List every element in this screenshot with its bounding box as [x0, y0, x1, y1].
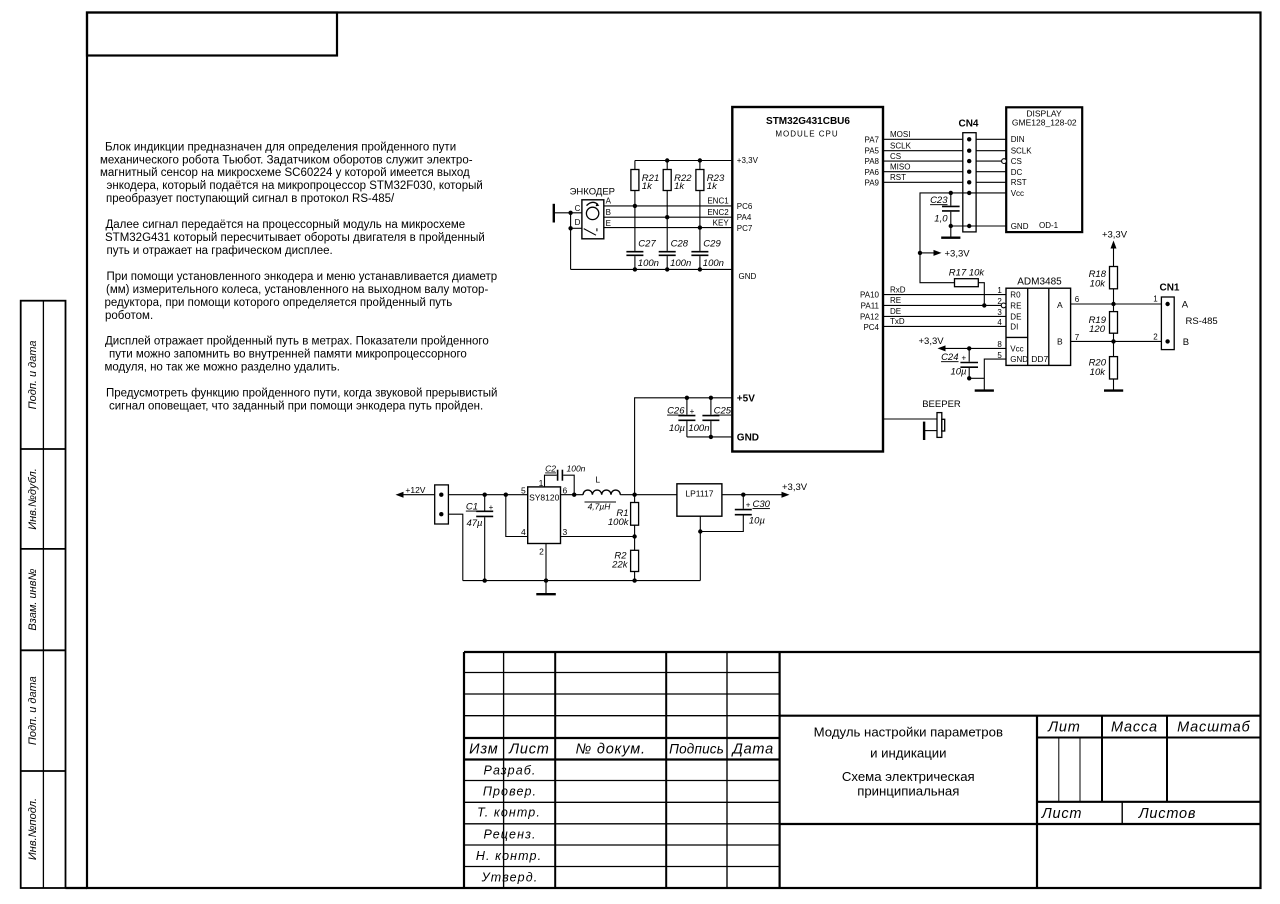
svg-text:Инв.№дубл.: Инв.№дубл. — [27, 468, 39, 530]
svg-text:DD7: DD7 — [1031, 354, 1048, 364]
svg-text:RST: RST — [890, 173, 906, 182]
wire RE PA11 to ADM3485 pin2 bubble — [884, 296, 1002, 305]
svg-text:сигнал оповещает, что заданный: сигнал оповещает, что заданный при помощ… — [109, 400, 483, 412]
svg-text:Лист: Лист — [508, 742, 550, 758]
svg-text:4,7µH: 4,7µH — [588, 501, 612, 511]
junction dot C23 top on Vcc net — [949, 191, 953, 195]
svg-text:пути можно запомнить во внутре: пути можно запомнить во внутренней памят… — [109, 349, 467, 361]
svg-text:3: 3 — [563, 527, 568, 537]
wire encoder D pin — [571, 227, 582, 229]
junction dot C29 on GND rail — [698, 267, 702, 271]
terminal bar at encoder common — [553, 204, 555, 223]
svg-text:и индикации: и индикации — [870, 745, 946, 760]
svg-text:DE: DE — [1010, 312, 1021, 321]
IC DA2 LP1117 — [677, 484, 722, 516]
svg-text:CS: CS — [1011, 157, 1022, 166]
svg-text:2: 2 — [539, 546, 544, 556]
svg-text:Модуль настройки параметров: Модуль настройки параметров — [814, 724, 1003, 739]
svg-text:CS: CS — [890, 152, 901, 161]
encoder S1 ЭНКОДЕР — [570, 187, 615, 239]
svg-text:Н. контр.: Н. контр. — [476, 849, 542, 863]
connector CN4 — [958, 119, 978, 232]
svg-text:GND: GND — [1010, 355, 1028, 364]
wire CN4 to display SCLK — [976, 150, 1006, 152]
svg-text:MISO: MISO — [890, 162, 910, 171]
junction dot rail R22 — [665, 158, 669, 162]
wire +3,3V pullup rail — [635, 160, 732, 162]
wire A line ADM3485 to CN1 — [1071, 303, 1162, 305]
junction dot LP1117 gnd C30 — [698, 529, 702, 533]
junction dot R22 on ENC2 — [665, 215, 669, 219]
svg-text:+: + — [690, 407, 695, 416]
svg-text:Vcc: Vcc — [1010, 344, 1023, 353]
capacitor C28 100n — [659, 217, 692, 269]
wire ENC1 line encoder A to PC6 — [604, 197, 733, 206]
svg-text:+12V: +12V — [405, 485, 425, 495]
svg-text:+3,3V: +3,3V — [737, 156, 759, 165]
svg-text:47µ: 47µ — [466, 518, 483, 529]
wire MISO PA6 to CN4 — [884, 162, 963, 171]
capacitor C27 100n — [626, 206, 659, 270]
svg-text:R0: R0 — [1010, 291, 1021, 300]
svg-text:Инв.№подл.: Инв.№подл. — [27, 798, 39, 860]
svg-text:SCLK: SCLK — [890, 141, 912, 150]
svg-text:DI: DI — [1010, 322, 1018, 331]
svg-text:DE: DE — [890, 307, 901, 316]
svg-text:принципиальная: принципиальная — [857, 783, 959, 798]
top-left document stamp box — [87, 13, 337, 56]
title block header texts — [469, 719, 1250, 884]
svg-text:+: + — [962, 354, 967, 363]
wire bottom rail — [463, 580, 701, 582]
svg-text:B: B — [606, 208, 611, 217]
svg-text:6: 6 — [1075, 295, 1080, 304]
svg-text:ADM3485: ADM3485 — [1017, 277, 1062, 288]
svg-text:LP1117: LP1117 — [685, 489, 713, 499]
svg-text:GND: GND — [1011, 222, 1029, 231]
svg-text:BEEPER: BEEPER — [922, 399, 961, 410]
svg-text:№ докум.: № докум. — [576, 742, 646, 758]
encoder pin letter A — [606, 197, 612, 206]
svg-text:CN4: CN4 — [958, 119, 978, 130]
wire RxD PA10 to ADM3485 pin1 — [884, 285, 1007, 294]
wire R18 to A line — [1113, 289, 1115, 312]
svg-text:PA10: PA10 — [860, 290, 880, 299]
svg-text:10µ: 10µ — [749, 516, 766, 527]
wire +12V rail to SY8120 — [448, 494, 527, 496]
wire CN4 to display DC — [976, 171, 1006, 173]
svg-text:CN1: CN1 — [1159, 282, 1179, 293]
svg-text:10µ: 10µ — [669, 423, 686, 434]
svg-text:C30: C30 — [753, 499, 771, 510]
beeper BQ1 — [884, 399, 961, 440]
encoder pin letter B — [606, 208, 611, 217]
svg-text:MOSI: MOSI — [890, 130, 910, 139]
IC DD7 ADM3485 — [1006, 277, 1071, 366]
svg-text:Дисплей отражает пройденный пу: Дисплей отражает пройденный путь в метра… — [105, 336, 489, 348]
junction dot B line R19 — [1111, 339, 1115, 343]
capacitor C1 47µ polarized — [466, 493, 494, 581]
wire Vcc net C23 to CN4 to display — [920, 193, 1006, 253]
wire RST PA9 to CN4 — [884, 173, 963, 182]
svg-text:100n: 100n — [703, 258, 724, 269]
resistor R20 10k — [1089, 357, 1118, 379]
svg-text:Утверд.: Утверд. — [481, 870, 539, 884]
svg-text:A: A — [606, 197, 612, 206]
svg-text:Изм: Изм — [469, 742, 498, 758]
svg-text:C23: C23 — [930, 195, 948, 206]
svg-text:RE: RE — [890, 296, 901, 305]
svg-text:При помощи установленного энко: При помощи установленного энкодера и мен… — [107, 271, 498, 283]
svg-text:100n: 100n — [567, 464, 586, 474]
svg-text:RS-485: RS-485 — [1186, 316, 1218, 327]
svg-text:120: 120 — [1089, 324, 1106, 335]
title block table — [464, 652, 1261, 888]
svg-text:4: 4 — [521, 527, 526, 537]
svg-text:1k: 1k — [707, 181, 718, 192]
encoder push switch — [584, 228, 597, 235]
wire ENC2 line encoder B to PA4 — [604, 208, 733, 217]
description text block — [100, 141, 497, 412]
svg-text:L: L — [595, 475, 600, 485]
svg-text:Дата: Дата — [731, 742, 774, 758]
capacitor C26 10µ polarized — [667, 396, 695, 437]
svg-text:Далее сигнал передаётся на про: Далее сигнал передаётся на процессорный … — [106, 219, 466, 231]
wire GND rail into MCU bottom — [687, 436, 732, 438]
capacitor C29 100n — [691, 228, 724, 270]
ground bar below C23 — [941, 226, 960, 238]
svg-text:RST: RST — [1011, 178, 1027, 187]
svg-text:C: C — [575, 204, 581, 213]
resistor R21 1k — [631, 161, 659, 206]
svg-text:OD-1: OD-1 — [1039, 221, 1059, 230]
capacitor C25 100n — [688, 396, 731, 440]
wire +3,3V vertical to R17 — [920, 253, 955, 283]
encoder pin letter C — [575, 204, 581, 213]
svg-text:Лит: Лит — [1047, 719, 1080, 735]
svg-text:редуктора, при помощи которого: редуктора, при помощи которого определяе… — [105, 297, 453, 309]
net label +3,3V arrow at LP1117 output — [782, 482, 808, 498]
resistor R17 10k — [949, 268, 986, 287]
svg-text:Листов: Листов — [1138, 806, 1197, 822]
svg-text:PA4: PA4 — [737, 213, 752, 222]
svg-text:10k: 10k — [1090, 279, 1107, 290]
svg-text:GME128_128-02: GME128_128-02 — [1012, 118, 1077, 128]
wire GND net C23 to CN4 to display — [951, 225, 1006, 227]
svg-text:Реценз.: Реценз. — [483, 827, 536, 841]
svg-text:22k: 22k — [611, 559, 629, 570]
CN4 pin junction dots — [967, 137, 971, 228]
wire +5V rail into MCU — [635, 398, 733, 495]
resistor R18 10k — [1089, 267, 1118, 290]
capacitor C23 1,0 — [930, 193, 960, 226]
encoder pin letter D — [575, 218, 581, 227]
junction dot C30 top — [741, 493, 745, 497]
svg-text:путь и отражает на графическом: путь и отражает на графическом дисплее. — [107, 245, 333, 257]
svg-text:PA9: PA9 — [864, 178, 879, 187]
net label +3,3V arrow near C23 — [918, 248, 970, 259]
svg-text:RE: RE — [1010, 301, 1021, 310]
svg-text:энкодера, который подаётся на: энкодера, который подаётся на микропроце… — [107, 180, 483, 192]
svg-text:ENC2: ENC2 — [707, 208, 729, 217]
svg-text:DIN: DIN — [1011, 135, 1025, 144]
wire DE PA12 to ADM3485 pin3 — [884, 307, 1007, 316]
junction dot C1 bottom rail — [483, 578, 487, 582]
svg-text:ENC1: ENC1 — [707, 197, 729, 206]
svg-text:C2: C2 — [545, 464, 556, 474]
wire connector pin2 to bottom rail — [448, 514, 462, 580]
junction dot C24 bottom — [967, 376, 971, 380]
svg-text:Разраб.: Разраб. — [484, 763, 537, 777]
svg-text:2: 2 — [997, 297, 1002, 306]
svg-text:100k: 100k — [608, 517, 630, 528]
wire CN4 to display DIN — [976, 138, 1006, 140]
svg-text:B: B — [1057, 336, 1063, 346]
svg-text:STM32G431 который пересчитывае: STM32G431 который пересчитывает обороты … — [105, 232, 485, 244]
svg-text:KEY: KEY — [713, 218, 730, 227]
svg-text:2: 2 — [1153, 333, 1158, 342]
wire encoder common down to GND rail — [570, 213, 572, 270]
svg-text:C24: C24 — [941, 352, 958, 363]
junction dot C23 bottom on GND net — [949, 224, 953, 228]
svg-text:C28: C28 — [671, 239, 689, 250]
sidebar label "Подп. и дата" (lower) — [27, 676, 39, 745]
svg-text:Блок индикции предназначен для: Блок индикции предназначен для определен… — [105, 141, 456, 153]
ground bar below R20 — [1104, 389, 1123, 391]
sidebar label "Инв.№дубл." — [27, 468, 39, 530]
svg-text:магнитный сенсор на микросхеме: магнитный сенсор на микросхеме SC60224 у… — [100, 167, 470, 179]
svg-text:1k: 1k — [674, 181, 685, 192]
svg-text:PC4: PC4 — [863, 323, 879, 332]
svg-text:Провер.: Провер. — [483, 784, 537, 798]
svg-text:1k: 1k — [642, 181, 653, 192]
svg-text:100n: 100n — [638, 258, 659, 269]
junction dot RE line — [982, 303, 986, 307]
ADM3485 RE inversion bubble — [1001, 303, 1006, 308]
svg-text:Лист: Лист — [1041, 806, 1083, 822]
sidebar label "Подп. и дата" (upper) — [27, 340, 39, 409]
svg-text:(мм) измерительного колеса, ус: (мм) измерительного колеса, установленно… — [106, 284, 488, 296]
sidebar table (left margin columns) — [21, 301, 87, 888]
encoder pin letter E — [606, 219, 611, 228]
svg-text:C26: C26 — [667, 406, 685, 417]
svg-text:роботом.: роботом. — [105, 310, 153, 322]
svg-text:A: A — [1182, 299, 1189, 310]
svg-text:R17 10k: R17 10k — [949, 268, 986, 279]
svg-text:Схема электрическая: Схема электрическая — [842, 769, 975, 784]
svg-text:TxD: TxD — [890, 317, 905, 326]
svg-text:Масса: Масса — [1111, 719, 1158, 735]
svg-text:+3,3V: +3,3V — [919, 336, 945, 347]
svg-text:PA8: PA8 — [864, 157, 879, 166]
svg-text:5: 5 — [521, 485, 526, 495]
svg-text:PC6: PC6 — [737, 202, 753, 211]
wire EN branch to pin4 — [506, 495, 528, 537]
junction dot L output node — [632, 493, 636, 497]
wire B line ADM3485 to CN1 — [1071, 340, 1162, 342]
svg-text:STM32G431CBU6: STM32G431CBU6 — [766, 116, 850, 127]
svg-text:+: + — [746, 501, 751, 510]
svg-text:механического робота Тьюбот. З: механического робота Тьюбот. Задатчиком … — [100, 154, 473, 166]
svg-text:MODULE CPU: MODULE CPU — [775, 129, 838, 138]
junction dot A line R18 — [1111, 302, 1115, 306]
svg-text:+: + — [489, 503, 494, 512]
svg-text:преобразует поступающий сигнал: преобразует поступающий сигнал в протоко… — [106, 193, 395, 205]
encoder rotation arrow — [587, 202, 600, 206]
svg-text:3: 3 — [997, 308, 1002, 317]
svg-text:100n: 100n — [670, 258, 691, 269]
resistor R22 1k — [663, 161, 692, 218]
display U2 GME128_128-02 — [1006, 107, 1082, 232]
svg-text:Подп. и дата: Подп. и дата — [27, 340, 39, 409]
svg-text:1: 1 — [539, 478, 544, 488]
ground bar below SY8120 — [536, 593, 556, 595]
ground bar below ADM3485 — [975, 389, 994, 391]
sidebar label "Инв.№подл." — [27, 798, 39, 860]
junction dot feedback node — [632, 534, 636, 538]
connector CN1 RS-485 — [1153, 282, 1217, 349]
svg-text:PA7: PA7 — [864, 136, 879, 145]
svg-text:1,0: 1,0 — [934, 213, 948, 224]
svg-text:модуля, но так же можно раздел: модуля, но так же можно разделно удалить… — [105, 362, 341, 374]
net label +3,3V arrow at ADM3485 Vcc — [919, 336, 1007, 352]
svg-text:8: 8 — [997, 340, 1002, 349]
svg-text:Масштаб: Масштаб — [1177, 719, 1250, 735]
svg-text:GND: GND — [737, 433, 759, 444]
wire R19 to B line — [1113, 333, 1115, 356]
wire SCLK PA5 to CN4 — [884, 141, 963, 150]
wire MOSI PA7 to CN4 — [884, 130, 963, 139]
svg-text:A: A — [1057, 300, 1063, 310]
encoder rotor circle — [586, 207, 598, 219]
wire ADM3485 GND pin5 to ground — [969, 359, 1006, 391]
svg-text:PA5: PA5 — [864, 147, 879, 156]
svg-text:SY8120: SY8120 — [529, 493, 560, 503]
svg-text:C27: C27 — [638, 239, 656, 250]
svg-text:Т. контр.: Т. контр. — [477, 806, 541, 820]
wire LP1117 output to +3,3V — [722, 494, 782, 496]
svg-text:+5V: +5V — [737, 393, 755, 404]
capacitor C30 10µ polarized — [700, 495, 770, 532]
svg-text:10k: 10k — [1090, 367, 1107, 378]
junction dot R23 on KEY — [698, 225, 702, 229]
wire KEY line encoder E to PC7 — [604, 218, 733, 227]
capacitor C2 100n bootstrap — [545, 464, 586, 495]
IC module U1 STM32G431CBU6 box — [732, 107, 883, 452]
junction dot R2 bottom rail — [632, 578, 636, 582]
junction dot C28 on GND rail — [665, 267, 669, 271]
resistor R2 22k — [611, 537, 638, 581]
display CS inversion bubble — [1002, 159, 1007, 164]
wire pin3 feedback — [561, 536, 635, 538]
svg-text:10µ: 10µ — [950, 366, 967, 377]
svg-text:4: 4 — [997, 318, 1002, 327]
wire CS PA8 to CN4 — [884, 152, 963, 161]
svg-text:7: 7 — [1075, 333, 1080, 342]
IC DA1 SY8120 — [521, 478, 568, 557]
svg-text:GND: GND — [739, 272, 757, 281]
svg-text:+3,3V: +3,3V — [1102, 230, 1128, 241]
wire SY8120 pin2 to ground — [545, 544, 547, 595]
junction dot rail R23 — [698, 158, 702, 162]
svg-text:C1: C1 — [466, 502, 478, 513]
svg-text:RxD: RxD — [890, 285, 906, 294]
wire CN4 to display RST — [976, 181, 1006, 183]
wire R20 to ground — [1113, 379, 1115, 391]
wire LP1117 GND pin down — [699, 516, 701, 580]
ADM3485 pin numbers — [997, 286, 1079, 360]
junction dot C2 at pin6 wire — [572, 493, 576, 497]
svg-text:SCLK: SCLK — [1011, 147, 1033, 156]
wire encoder common C pin — [554, 212, 582, 214]
resistor R1 100k — [608, 495, 639, 537]
wire TxD PC4 to ADM3485 pin4 DI — [884, 317, 1007, 326]
svg-text:C25: C25 — [714, 406, 732, 417]
svg-text:5: 5 — [997, 351, 1002, 360]
junction dot encoder C — [568, 211, 572, 215]
inductor L 4,7µH — [583, 475, 620, 512]
svg-text:1: 1 — [997, 286, 1002, 295]
svg-text:D: D — [575, 218, 581, 227]
MCU pin labels left side — [737, 156, 759, 443]
svg-text:1: 1 — [1153, 295, 1158, 304]
svg-text:100n: 100n — [688, 423, 709, 434]
svg-text:Подп. и дата: Подп. и дата — [27, 676, 39, 745]
junction dot C24 on Vcc wire — [967, 346, 971, 350]
wire GND rail encoder section — [571, 268, 733, 270]
svg-text:Предусмотреть функцию пройденн: Предусмотреть функцию пройденного пути, … — [106, 387, 497, 399]
svg-text:Vcc: Vcc — [1011, 189, 1024, 198]
svg-text:PA12: PA12 — [860, 312, 880, 321]
svg-text:Подпись: Подпись — [669, 742, 724, 757]
resistor R23 1k — [696, 161, 725, 228]
net label +3,3V arrow above R18 — [1102, 230, 1128, 267]
wire CN4 to display CS bubble — [976, 160, 1002, 162]
svg-text:B: B — [1183, 337, 1189, 348]
capacitor C24 10µ polarized — [941, 348, 978, 378]
sidebar label "Взам. инв№" — [27, 569, 39, 631]
resistor R19 120 — [1089, 312, 1118, 336]
svg-text:PC7: PC7 — [737, 224, 753, 233]
junction dot pin2 on bottom rail — [544, 578, 548, 582]
svg-text:+3,3V: +3,3V — [782, 482, 808, 493]
svg-text:6: 6 — [563, 485, 568, 495]
junction dot encoder D — [568, 226, 572, 230]
junction dot R21 on ENC1 — [633, 204, 637, 208]
net label +12V arrow — [396, 485, 435, 498]
svg-text:C29: C29 — [703, 239, 721, 250]
svg-text:Взам. инв№: Взам. инв№ — [27, 569, 39, 631]
svg-text:DC: DC — [1011, 168, 1023, 177]
connector X1 power input — [435, 485, 449, 524]
wire R17 to RE line — [978, 283, 984, 306]
wire inductor to LP1117 — [620, 494, 677, 496]
svg-text:PA6: PA6 — [864, 168, 879, 177]
svg-text:+3,3V: +3,3V — [945, 248, 971, 259]
title block document name — [814, 724, 1003, 798]
svg-text:E: E — [606, 219, 611, 228]
svg-text:PA11: PA11 — [861, 301, 880, 310]
MCU pin labels right side — [860, 136, 880, 332]
wire pin6 to inductor — [561, 494, 584, 496]
junction dot C27 on GND rail — [633, 267, 637, 271]
junction dot EN branch — [504, 493, 508, 497]
